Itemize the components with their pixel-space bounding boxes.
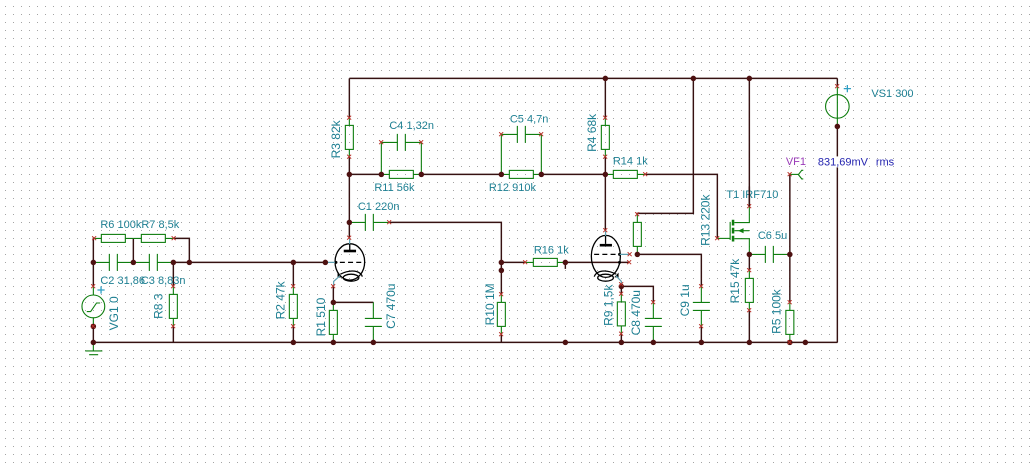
wire: R15 bottom lead [748, 310, 750, 342]
wire: R3 top lead to rail [348, 78, 350, 118]
wire: tube1 plate riser [348, 174, 350, 238]
wire: VS1 negative return [836, 126, 838, 342]
plus sign VG1 [97, 286, 104, 293]
junction dots input bus [91, 260, 329, 266]
svg-text:R15 47k: R15 47k [728, 258, 742, 304]
svg-text:R8 3: R8 3 [151, 293, 165, 319]
junction dot tube1 cathode [331, 300, 337, 306]
wire: R2 top lead [292, 262, 294, 286]
wire: R2 bottom lead [292, 326, 294, 342]
MOSFET T1 [717, 206, 749, 254]
wire: R10 top lead [500, 270, 502, 294]
wire: R3 bottom to feedback bus [348, 157, 350, 175]
capacitor C9 [693, 286, 710, 326]
svg-text:T1 IRF710: T1 IRF710 [726, 189, 778, 201]
junction dots ground rail [91, 340, 809, 346]
label C1 value [358, 201, 400, 213]
wire: tube2 grid node to C9 [637, 254, 701, 286]
wire: +300V top rail [349, 77, 837, 79]
capacitor C3 [133, 254, 173, 271]
junction dot tube2 cathode [619, 284, 625, 290]
resistor R3 [345, 118, 353, 157]
junction dots top rail [603, 76, 753, 82]
label R15 value (vertical) [728, 258, 742, 304]
label VF1 [786, 156, 806, 168]
junction dot C1 left [347, 220, 353, 226]
wire: tube2 grid stub from R16 [565, 261, 629, 263]
junction dots feedback bus [347, 172, 608, 178]
wire: tube2 plate riser [604, 174, 606, 230]
capacitor C6 [749, 246, 790, 263]
label C9 value (vertical) [678, 284, 692, 316]
label R5 value (vertical) [769, 288, 783, 334]
capacitor C1 [349, 214, 389, 231]
label VG1 value (vertical) [107, 296, 121, 330]
wire: R9 top lead [620, 286, 622, 294]
junction dot output node [787, 252, 793, 258]
wire: R6/R7 mid junction riser [132, 238, 134, 262]
label C6 value [758, 230, 787, 242]
triode V1 anode [344, 244, 356, 251]
svg-text:VG1 0: VG1 0 [107, 296, 121, 330]
junction dot MOSFET source node [747, 252, 753, 258]
label C3 value [141, 275, 186, 287]
svg-text:C1 220n: C1 220n [358, 201, 400, 213]
label R1 value (vertical) [314, 297, 328, 336]
label R10 value (vertical) [483, 283, 497, 325]
label C4 value [389, 120, 434, 132]
wire: R8 bottom lead [172, 326, 174, 342]
svg-text:R14 1k: R14 1k [613, 156, 648, 168]
svg-text:C3 8,83n: C3 8,83n [141, 275, 186, 287]
label R3 value (vertical) [329, 119, 343, 158]
junction dot VS1 bottom [835, 124, 841, 129]
triode V2 anode [600, 236, 612, 245]
wire: R14 output to MOSFET gate [645, 174, 717, 238]
resistor R16 [525, 258, 565, 266]
label R2 value (vertical) [273, 280, 287, 319]
capacitor C8 [645, 302, 662, 342]
svg-text:VS1 300: VS1 300 [871, 88, 913, 100]
wire: VG1 top lead [92, 262, 94, 286]
label R11 value [374, 182, 415, 194]
resistor R15 [745, 270, 753, 310]
wire: feedback bus y=174 segment 1 [349, 173, 381, 175]
junction dot VG1 bottom [91, 324, 97, 330]
label C7 value (vertical) [384, 284, 398, 329]
svg-text:831,69mV: 831,69mV [818, 157, 869, 169]
triode V1 pin leads [325, 238, 349, 286]
wire: source node to R15 [748, 254, 750, 270]
label R9 value (vertical) [601, 284, 615, 326]
triode V2 pin dot (lower) [618, 261, 621, 264]
wire: R16 feed [501, 261, 525, 263]
label C8 value (vertical) [629, 290, 643, 335]
wire: R4 top lead to rail [604, 78, 606, 118]
svg-text:R6 100k: R6 100k [100, 219, 141, 231]
svg-text:R10 1M: R10 1M [483, 283, 497, 325]
resistor R11 [381, 170, 421, 178]
wire: tube1 cathode to R1/C7 node [333, 286, 373, 302]
wire: feedback bus y=174 segment 2 [421, 173, 501, 175]
capacitor C7 [365, 302, 382, 342]
triode V2 grid (dashed) [594, 253, 621, 256]
svg-text:C6 5u: C6 5u [758, 230, 787, 242]
label R13 value (vertical) [698, 194, 712, 246]
resistor R4 [601, 118, 609, 157]
wire: rail drop to R13 top [637, 78, 693, 214]
svg-text:R16 1k: R16 1k [534, 244, 569, 256]
capacitor C5 [501, 126, 541, 174]
wire: C1 output to tube2 grid network [389, 222, 501, 270]
wire: output node to R5 [789, 254, 791, 302]
resistor R12 [501, 170, 541, 178]
terminal x marks [91, 84, 839, 344]
svg-text:rms: rms [876, 157, 895, 169]
label T1 type [726, 189, 778, 201]
wire: input bus y=262 [173, 261, 325, 263]
wire: VG1 bottom lead [92, 326, 94, 342]
plus sign VS1 [844, 85, 851, 92]
label R6 value [100, 219, 141, 231]
voltage source VS1 [826, 86, 850, 126]
junction dot R16 right [563, 260, 569, 266]
triode tube V2 envelope [591, 235, 620, 277]
resistor R1 [329, 302, 337, 342]
svg-text:C2 31,86: C2 31,86 [100, 275, 145, 287]
label R8 value (vertical) [151, 293, 165, 319]
svg-text:R5 100k: R5 100k [769, 288, 783, 334]
capacitor C4 [381, 134, 421, 175]
resistor R2 [289, 286, 297, 326]
resistor R7 [133, 234, 174, 242]
svg-text:C9 1u: C9 1u [678, 284, 692, 316]
svg-text:VF1: VF1 [786, 156, 806, 168]
wire: input top branch R6 left riser [93, 238, 94, 262]
wire: output node riser to probe [789, 174, 791, 254]
wire: R10 bottom lead [500, 334, 502, 342]
capacitor C2 [93, 254, 133, 271]
svg-text:R3 82k: R3 82k [329, 119, 343, 158]
voltmeter probe VF1 [790, 170, 803, 179]
triode V2 cathode [594, 271, 618, 281]
wire: R8 top lead [172, 262, 174, 286]
wire: feedback bus y=174 segment 3 [541, 173, 605, 175]
label C2 value [100, 275, 145, 287]
svg-text:R4 68k: R4 68k [585, 113, 599, 152]
resistor R14 [605, 170, 645, 178]
svg-text:R12 910k: R12 910k [489, 182, 537, 194]
label R14 value [613, 156, 648, 168]
voltage generator VG1 [82, 286, 105, 326]
triode tube V1 envelope [335, 244, 365, 280]
triode V1 grid (dashed) [334, 261, 361, 264]
label R16 value [534, 244, 569, 256]
resistor R6 [94, 234, 133, 242]
wire: drain riser from rail [748, 78, 750, 206]
wire: cathode node to C8 [621, 286, 653, 302]
svg-text:R7 8,5k: R7 8,5k [141, 219, 179, 231]
svg-text:R1 510: R1 510 [314, 297, 328, 336]
wire: drain riser over label [748, 186, 750, 206]
ground [85, 342, 102, 354]
label C5 value [510, 113, 549, 125]
wire: VS1 top stub [836, 78, 838, 86]
triode V1 cathode [338, 271, 363, 281]
svg-text:C4 1,32n: C4 1,32n [389, 120, 434, 132]
triode V2 pin leads [606, 231, 630, 285]
wire: ground rail [93, 341, 837, 343]
junction dot tube2 grid / R13 [635, 252, 641, 258]
meter reading 831,69mV rms [817, 156, 895, 168]
wire: C9 bottom lead [700, 326, 702, 342]
label R4 value (vertical) [585, 113, 599, 152]
label VS1 value [871, 88, 913, 100]
resistor R10 [497, 294, 505, 334]
svg-text:C8 470u: C8 470u [629, 290, 643, 335]
resistor R9 [617, 294, 625, 334]
wire: tube2 cathode node [620, 284, 622, 286]
resistor R8 [169, 286, 177, 326]
resistor R5 [786, 302, 794, 342]
label R12 value [489, 182, 537, 194]
svg-text:R2 47k: R2 47k [273, 280, 287, 319]
svg-text:R13 220k: R13 220k [698, 194, 712, 246]
svg-text:R9 1,5k: R9 1,5k [601, 284, 615, 326]
junction dots C1/R16/R10 node [499, 260, 505, 274]
wire: R7 right riser [174, 238, 190, 262]
wire: stub below R16 node [564, 262, 566, 269]
svg-text:R11 56k: R11 56k [374, 182, 415, 194]
wire: R9 bottom lead [620, 334, 622, 343]
svg-text:C7 470u: C7 470u [384, 284, 398, 329]
svg-text:C5 4,7n: C5 4,7n [510, 113, 549, 125]
label R7 value [141, 219, 179, 231]
wire: R4 bottom to bus [604, 157, 606, 175]
resistor R13 [633, 214, 641, 254]
